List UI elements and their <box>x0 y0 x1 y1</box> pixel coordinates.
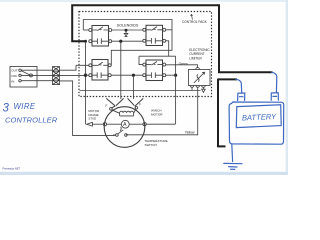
K4 pin lower-left <box>143 74 146 77</box>
U1 internal triac symbol <box>194 72 205 83</box>
K4 coil <box>146 72 163 78</box>
K4 pin lower-right <box>163 74 166 77</box>
K1 pin upper-right <box>109 29 112 32</box>
K3 pin lower-left <box>89 74 92 77</box>
node: solenoid ground tap dot <box>125 29 128 32</box>
svg-text:OFF: OFF <box>11 74 17 78</box>
S1 contact IN <box>19 80 21 82</box>
wire: down to field F2 funnel <box>132 77 134 99</box>
node: junction dot bus to K3 coil <box>84 74 87 77</box>
wire: K2 upper-right to loop <box>166 29 172 31</box>
K3 contact switch <box>92 62 108 66</box>
wire: down to field F1 funnel <box>120 43 122 99</box>
battery ground wire <box>231 144 234 162</box>
K2 coil <box>146 38 163 44</box>
temperature switch blade <box>118 127 124 134</box>
K2 pin upper-left <box>143 28 146 31</box>
wire: solenoid loop bus (top) <box>83 20 172 66</box>
K2 contact switch <box>146 27 163 31</box>
armature terminal left <box>103 123 106 126</box>
page background <box>0 0 288 175</box>
node: junction dot to motor field F1 <box>119 40 122 43</box>
motor field terminal F2 <box>135 107 138 110</box>
blue wire: positive bus to battery right terminal <box>272 72 277 93</box>
svg-text:3: 3 <box>3 103 10 115</box>
svg-text:SOLENOIDS: SOLENOIDS <box>117 23 139 27</box>
K1 pin upper-left <box>89 29 92 32</box>
armature terminal right <box>143 123 146 126</box>
wire: OFF lead to control pack <box>21 74 84 76</box>
svg-text:Pressauto.NET: Pressauto.NET <box>3 166 21 170</box>
U1 top terminal bump <box>196 68 200 70</box>
wire: U1 pin2 temperature sense (yellow) <box>126 87 198 135</box>
battery BT1 body <box>229 102 284 144</box>
temperature switch contact right <box>125 134 128 137</box>
ground symbol (battery) <box>224 163 242 169</box>
K3 pin upper-right <box>108 64 111 67</box>
S1 switch arm <box>21 71 29 75</box>
wire: K4 lower-right to armature node <box>166 74 174 76</box>
top edge tint <box>0 0 288 2</box>
svg-text:MOTOR: MOTOR <box>151 112 163 116</box>
S1 contact OFF <box>19 74 21 76</box>
control pack inner case bottom line <box>80 90 201 92</box>
wire: K3 to K4 lower terminals <box>111 74 143 76</box>
svg-text:SWITCH: SWITCH <box>145 143 157 147</box>
svg-text:Yellow: Yellow <box>185 130 195 134</box>
K1 pin lower-left <box>89 40 92 43</box>
solenoid relay K2 (row1 right) box <box>146 25 163 45</box>
K4 pin upper-left <box>143 63 146 66</box>
wire: frame stud lead <box>92 123 103 125</box>
wire: left bus vertical to motor frame stud <box>85 43 87 125</box>
thick battery positive bus wire (outer loop top) <box>72 5 272 72</box>
U1 pin3 output arrow <box>202 87 206 92</box>
U1 bottom bump pin 2 <box>196 86 200 88</box>
svg-text:CONTROL PACK: CONTROL PACK <box>182 20 208 24</box>
K2 pin upper-right <box>163 28 166 31</box>
svg-text:STUD: STUD <box>88 117 96 121</box>
K4 pin upper-right <box>163 63 166 66</box>
K2 pin lower-right <box>163 39 166 42</box>
S1 common pole <box>30 74 33 77</box>
node: junction dot thick bus to solenoid K1 coil <box>84 40 87 43</box>
wire: K1 to K2 lower terminals <box>112 40 143 42</box>
K4 contact switch <box>146 61 163 65</box>
motor field coil winding <box>112 109 136 116</box>
wire: bus to K3 lower-left <box>86 74 89 76</box>
ground symbol (solenoids common) <box>124 32 128 37</box>
wire: OUT lead to control pack <box>21 65 88 70</box>
svg-text:LIMITER: LIMITER <box>189 56 202 60</box>
motor field terminal F1 <box>110 108 113 111</box>
handwritten note: 3 WIRE CONTROLLER <box>3 102 58 125</box>
wire: IN lead to motor temperature switch <box>21 81 115 136</box>
battery terminal post right <box>271 93 278 101</box>
control pack dashed enclosure <box>79 12 212 97</box>
wire: armature right to feed node <box>146 123 175 125</box>
connector J1 crosshatch block <box>53 67 60 85</box>
temperature switch contact left <box>116 134 119 137</box>
rocker switch S1 box (3 wire controller) <box>10 67 37 88</box>
S1 contact OUT <box>19 69 21 71</box>
control pack leader tick <box>191 14 193 19</box>
node: junction dot armature feed <box>174 74 177 77</box>
motor armature symbol (A) <box>121 120 129 128</box>
K3 pin lower-right <box>108 74 111 77</box>
K3 coil <box>92 72 108 78</box>
solenoid relay K1 (row1 left) box <box>92 26 109 47</box>
svg-text:IN: IN <box>11 79 14 83</box>
wire: K4 upper-right to current limiter top (Green wire) <box>166 65 198 68</box>
K1 coil <box>92 38 109 44</box>
motor field funnel F2 <box>128 98 144 107</box>
svg-text:BATTERY: BATTERY <box>242 112 277 123</box>
K3 pin upper-left <box>89 64 92 67</box>
svg-text:WIRE: WIRE <box>14 102 36 111</box>
armature left lead <box>107 123 122 125</box>
wire: stub loop to K1 upper-left terminal <box>83 29 88 31</box>
bottom edge tint <box>0 172 288 175</box>
solenoid relay K4 (row2 right) box <box>146 60 163 81</box>
wire: U1 pin1 to case <box>191 87 193 90</box>
K1 contact switch <box>92 27 109 31</box>
K2 pin lower-left <box>143 39 146 42</box>
winch motor M1 body circle <box>104 107 145 148</box>
U1 bottom bump pin 3 <box>202 86 206 88</box>
K1 pin lower-right <box>109 40 112 43</box>
blue wire: negative bus to battery left terminal <box>236 79 242 93</box>
wire: K2 lower-right down to K4 upper-left <box>139 41 176 65</box>
U1 bottom bump pin 1 <box>190 86 194 88</box>
solenoid relay K3 (row2 left) box <box>92 60 108 81</box>
svg-text:OUT: OUT <box>11 69 17 73</box>
motor frame stud arrow <box>87 122 93 126</box>
wire: armature node down to motor A terminal <box>175 56 177 124</box>
armature right lead <box>129 123 143 125</box>
battery negative bus (black, right side) <box>217 79 237 147</box>
svg-text:CONTROLLER: CONTROLLER <box>5 116 58 125</box>
right edge tint <box>286 0 288 175</box>
battery label band <box>236 105 281 128</box>
svg-text:Green: Green <box>179 62 188 66</box>
wire: loop stub to K3 upper-right <box>110 64 112 66</box>
wire: controller IN wire to temp switch <box>113 134 116 136</box>
node: junction dot to motor field F2 <box>132 74 135 77</box>
wire: K1 to K2 upper terminals <box>112 29 143 31</box>
electronic current limiter U1 box <box>189 70 211 86</box>
battery terminal post left <box>238 93 245 101</box>
motor field funnel F1 <box>106 98 123 108</box>
